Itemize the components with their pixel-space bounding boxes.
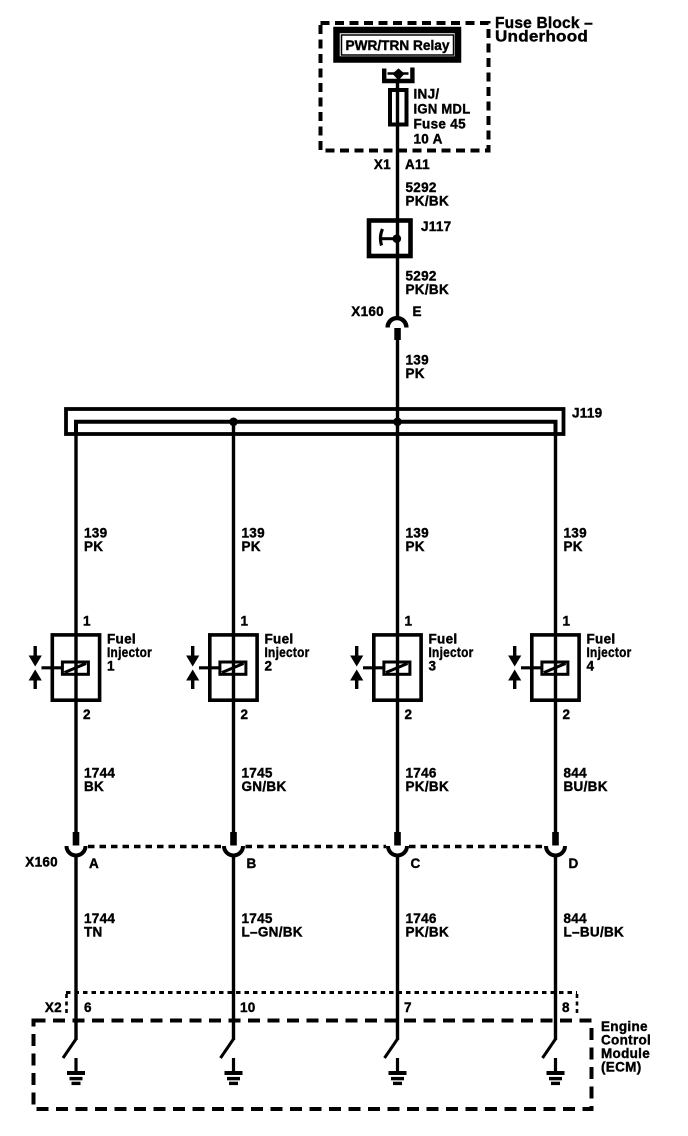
ground col3	[389, 1058, 407, 1083]
wire from relay through fuse to X1	[396, 81, 399, 162]
svg-text:PK/BK: PK/BK	[406, 925, 450, 940]
fuel injector 4 coil	[542, 662, 568, 674]
wire 139 PK to J119	[396, 340, 399, 422]
wire label 1744 TN	[84, 911, 115, 940]
relay output terminal pin (blade with arrow)	[388, 68, 409, 80]
wire 844 L-BU/BK col4	[554, 856, 557, 1041]
svg-text:X2: X2	[45, 1000, 62, 1015]
svg-text:PK: PK	[242, 539, 261, 554]
svg-text:2: 2	[405, 707, 413, 722]
fuse INJ/IGN MDL Fuse 45	[390, 90, 407, 125]
svg-text:Underhood: Underhood	[495, 29, 588, 46]
svg-text:TN: TN	[84, 925, 103, 940]
svg-text:PK/BK: PK/BK	[406, 282, 450, 297]
connector X2 right tick	[576, 994, 579, 1014]
fuel injector 3 valve symbol	[350, 646, 383, 689]
svg-text:10 A: 10 A	[414, 132, 443, 147]
splice pack J119 outer box	[66, 409, 564, 434]
connector X160 pin C male blade	[394, 832, 401, 846]
svg-text:C: C	[411, 856, 421, 871]
svg-text:INJ/: INJ/	[414, 87, 440, 102]
svg-text:Fuse 45: Fuse 45	[414, 117, 467, 132]
wire 139 PK column 2	[232, 422, 235, 832]
svg-text:(ECM): (ECM)	[601, 1060, 642, 1075]
splice pack J119 bus bar	[76, 422, 556, 434]
svg-text:4: 4	[587, 659, 595, 674]
svg-text:PK: PK	[84, 539, 103, 554]
fuse block underhood dashed box	[321, 23, 489, 151]
wire label 139 PK col2	[242, 526, 265, 555]
svg-text:2: 2	[83, 707, 91, 722]
wire label 5292 PK/BK	[406, 180, 450, 209]
connector X160 dashed harness line	[88, 845, 544, 848]
connector X160 pin E female arc	[388, 318, 407, 327]
fuel injector 3 coil	[384, 662, 410, 674]
svg-text:A11: A11	[405, 157, 430, 172]
wire label 139 PK col1	[84, 526, 107, 555]
svg-text:2: 2	[241, 707, 249, 722]
fuel injector 1 label	[107, 632, 152, 674]
wire label 5292 PK/BK (lower)	[406, 269, 450, 298]
fuel injector 2 box	[210, 635, 257, 700]
svg-text:7: 7	[404, 1000, 412, 1015]
connector X160 pin A male blade	[73, 832, 80, 846]
wire 1746 PK/BK col3	[396, 856, 399, 1041]
wire label 1746 PK/BK	[406, 766, 450, 795]
svg-text:E: E	[413, 304, 422, 319]
svg-text:6: 6	[84, 1000, 92, 1015]
svg-text:PK/BK: PK/BK	[406, 779, 450, 794]
ECM driver switch 4	[543, 1039, 556, 1058]
wire label 844 L-BU/BK	[564, 911, 625, 940]
fuel injector 2 valve symbol	[186, 646, 219, 689]
ECM driver switch 2	[221, 1039, 234, 1058]
ground col4	[547, 1058, 565, 1083]
wire label 1744 BK	[84, 766, 115, 795]
svg-text:GN/BK: GN/BK	[242, 779, 287, 794]
wire 1745 L-GN/BK col2	[232, 856, 235, 1041]
fuel injector 4 label	[587, 632, 632, 674]
engine control module label	[601, 1019, 651, 1075]
splice J117 box	[369, 221, 411, 257]
svg-text:IGN MDL: IGN MDL	[414, 102, 471, 117]
wire label 1745 GN/BK	[242, 766, 287, 795]
connector X160 pin E male blade	[394, 328, 401, 340]
ECM driver switch 3	[385, 1039, 398, 1058]
svg-text:PK/BK: PK/BK	[406, 194, 450, 209]
svg-text:2: 2	[563, 707, 571, 722]
fuel injector 2 label	[265, 632, 310, 674]
wire 139 PK column 1	[74, 422, 77, 832]
svg-text:J117: J117	[421, 219, 452, 234]
splice J117 symbol	[380, 229, 401, 246]
svg-text:L–BU/BK: L–BU/BK	[564, 925, 625, 940]
relay PWR/TRN Relay inner box	[342, 35, 454, 55]
ECM driver switch 1	[63, 1039, 76, 1058]
fuel injector 2 coil	[220, 662, 246, 674]
svg-text:PK: PK	[406, 539, 425, 554]
fuel injector 3 box	[374, 635, 421, 700]
svg-text:J119: J119	[572, 406, 603, 421]
svg-text:BU/BK: BU/BK	[564, 779, 608, 794]
wire 5292 PK/BK (upper)	[396, 162, 399, 220]
wire 139 PK column 4	[554, 422, 557, 832]
svg-text:X1: X1	[374, 157, 391, 172]
svg-text:X160: X160	[351, 304, 384, 319]
junction dot wire 2	[229, 418, 238, 427]
junction dot wire 3	[393, 418, 402, 427]
svg-text:BK: BK	[84, 779, 104, 794]
connector X2 dashed line	[66, 991, 577, 994]
svg-text:B: B	[247, 856, 257, 871]
fuse label	[414, 87, 471, 147]
ground col2	[225, 1058, 243, 1083]
svg-text:X160: X160	[25, 855, 58, 870]
wire label 139 PK col4	[564, 526, 587, 555]
fuel injector 4 box	[532, 635, 579, 700]
svg-text:A: A	[89, 856, 99, 871]
connector X160 pin D male blade	[552, 832, 559, 846]
svg-text:L–GN/BK: L–GN/BK	[242, 925, 303, 940]
svg-text:1: 1	[107, 659, 115, 674]
wire 1744 TN col1	[74, 856, 77, 1041]
connector X160 pin C female cup	[388, 846, 407, 856]
fuse holder cup terminal	[384, 68, 412, 82]
svg-text:10: 10	[240, 1000, 256, 1015]
connector X160 pin A female cup	[67, 846, 86, 856]
fuel injector 4 valve symbol	[508, 646, 541, 689]
svg-text:1: 1	[241, 614, 249, 629]
svg-text:PWR/TRN Relay: PWR/TRN Relay	[346, 37, 450, 53]
svg-text:2: 2	[265, 659, 273, 674]
fuel injector 3 label	[429, 632, 474, 674]
ground col1	[67, 1058, 85, 1083]
svg-text:1: 1	[563, 614, 571, 629]
wire label 1746 PK/BK lower	[406, 911, 450, 940]
wire label 1745 L-GN/BK	[242, 911, 303, 940]
connector X1 pin A11 labels	[374, 157, 430, 172]
connector X160 pin E labels	[351, 304, 422, 319]
svg-text:8: 8	[562, 1000, 570, 1015]
connector X160 pin B female cup	[224, 846, 243, 856]
svg-text:1: 1	[83, 614, 91, 629]
wire through J117 down to X160 E	[396, 220, 399, 318]
relay PWR/TRN Relay outer box	[337, 30, 459, 60]
connector X160 pin D female cup	[546, 846, 565, 856]
svg-text:PK: PK	[564, 539, 583, 554]
wire label 844 BU/BK	[564, 766, 608, 795]
svg-text:1: 1	[405, 614, 413, 629]
svg-text:D: D	[569, 856, 579, 871]
svg-text:PK: PK	[406, 366, 425, 381]
fuel injector 1 coil	[62, 662, 88, 674]
engine control module ECM dashed box	[34, 1021, 592, 1110]
fuel injector 1 valve symbol	[29, 646, 62, 689]
svg-text:3: 3	[429, 659, 437, 674]
connector X160 pin B male blade	[230, 832, 237, 846]
wire label 139 PK	[406, 353, 429, 382]
fuel injector 1 box	[52, 635, 99, 700]
wire 139 PK column 3	[396, 422, 399, 832]
wire label 139 PK col3	[406, 526, 429, 555]
connector X2 left tick	[65, 994, 68, 1014]
